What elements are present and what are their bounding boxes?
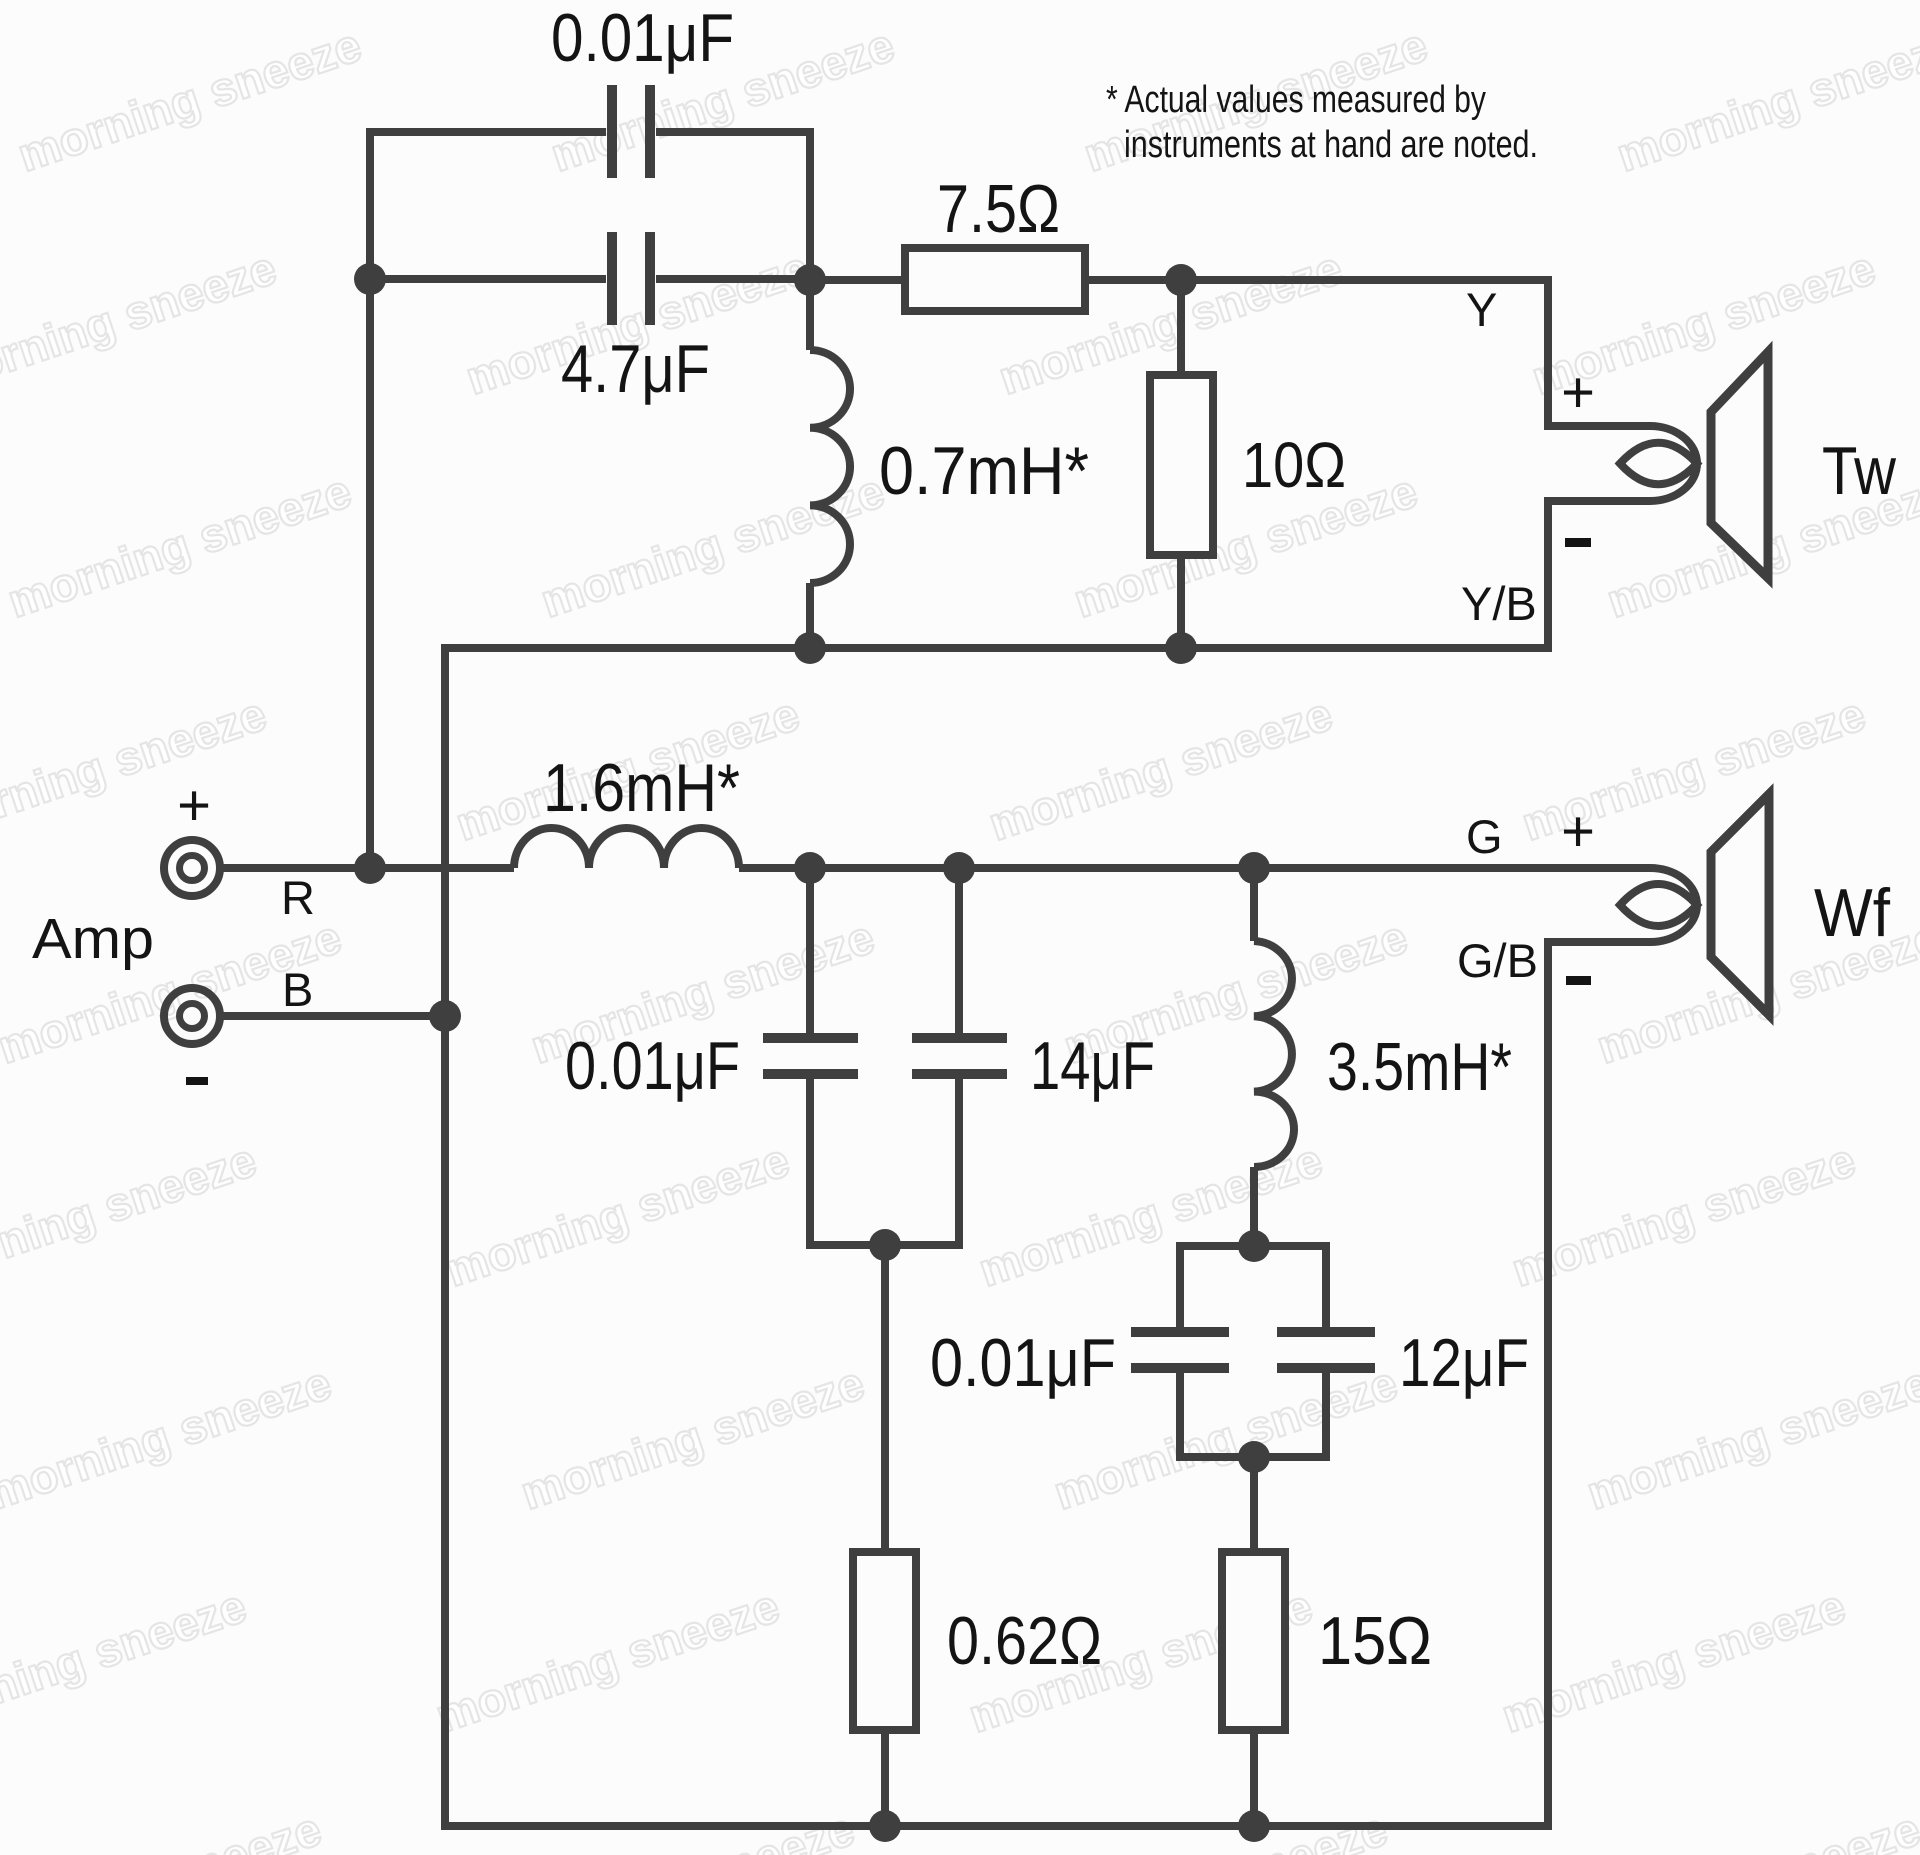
node dot (1254,868) bbox=[1238, 852, 1270, 884]
node dot (370,279) bbox=[354, 263, 386, 295]
node dot (1254,1826) bbox=[1238, 1810, 1270, 1842]
svg-text:Y/B: Y/B bbox=[1461, 577, 1537, 630]
amp - terminal bbox=[164, 988, 220, 1044]
svg-text:Y: Y bbox=[1466, 283, 1497, 336]
svg-text:+: + bbox=[1561, 360, 1595, 425]
svg-text:instruments at hand are noted.: instruments at hand are noted. bbox=[1124, 124, 1538, 166]
woofer cone bbox=[1711, 794, 1769, 1015]
wire: Y rail resistor to corner, down to Tw plus stub bbox=[1085, 280, 1650, 426]
node dot (1254,1246) bbox=[1238, 1230, 1270, 1262]
wire: Y rail from cap node to resistor bbox=[810, 276, 905, 284]
node dot (810,648) bbox=[794, 632, 826, 664]
wire: cap pair bottom rail y=1245 bbox=[806, 1241, 963, 1249]
node dot (810,279) bbox=[794, 264, 826, 296]
svg-text:12μF: 12μF bbox=[1399, 1325, 1529, 1401]
wire: cap column x=959 lower bbox=[955, 868, 963, 1249]
label Amp minus bbox=[186, 1077, 208, 1085]
tweeter cone bbox=[1711, 352, 1768, 578]
inductor 1.6mH bbox=[514, 828, 739, 868]
wire: cap box bottom rail y=1457 bbox=[1180, 1453, 1326, 1461]
amp + terminal bbox=[164, 840, 220, 896]
capacitor 4.7uF plates bbox=[612, 232, 650, 325]
wire: 3.5mH to cap box bbox=[1250, 1167, 1258, 1246]
node dot (1254,1457) bbox=[1238, 1441, 1270, 1473]
wire: cap box left column x=1180 bbox=[1176, 1242, 1184, 1461]
svg-text:Amp: Amp bbox=[32, 907, 154, 971]
wire: left node column vertical (370,132)-(370,868) bbox=[366, 132, 374, 868]
svg-text:3.5mH*: 3.5mH* bbox=[1327, 1029, 1512, 1105]
node dot (959,868) bbox=[943, 852, 975, 884]
wire: 10ohm column top bbox=[1177, 280, 1185, 375]
wire: cap box right column x=1326 bbox=[1322, 1242, 1330, 1461]
woofer voice coil arc bbox=[1650, 868, 1697, 942]
resistor 0.62ohm bbox=[853, 1552, 916, 1730]
wire: G rail y=868 bbox=[739, 864, 1650, 872]
tweeter voice coil lens bbox=[1620, 443, 1697, 485]
node dot (370,868) bbox=[354, 852, 386, 884]
wire: 3.5mH column top bbox=[1250, 868, 1258, 941]
resistor 10ohm bbox=[1150, 375, 1213, 555]
svg-text:0.01μF: 0.01μF bbox=[930, 1325, 1116, 1401]
wire: 15ohm to bottom rail bbox=[1250, 1730, 1258, 1826]
wire: right node column x=810 (top) bbox=[806, 128, 814, 350]
label Tw minus bbox=[1565, 538, 1591, 547]
inductor 0.7mH bbox=[810, 350, 850, 583]
svg-text:R: R bbox=[281, 871, 315, 924]
wire: 10ohm column bottom bbox=[1177, 555, 1185, 648]
node dot (1181,648) bbox=[1165, 632, 1197, 664]
capacitor 0.01uF bottom plates bbox=[1131, 1332, 1229, 1368]
svg-text:0.62Ω: 0.62Ω bbox=[947, 1603, 1102, 1679]
svg-text:B: B bbox=[282, 963, 313, 1016]
svg-text:0.01μF: 0.01μF bbox=[551, 0, 734, 76]
svg-text:* Actual values measured by: * Actual values measured by bbox=[1106, 79, 1486, 121]
amp - terminal wire bbox=[222, 1012, 445, 1020]
wire: cap box top rail y=1246 bbox=[1180, 1242, 1326, 1250]
node dot (885,1245) bbox=[869, 1229, 901, 1261]
woofer voice coil lens bbox=[1620, 884, 1697, 926]
wire: 15ohm column x=1254 bbox=[1250, 1457, 1258, 1552]
svg-text:15Ω: 15Ω bbox=[1318, 1603, 1432, 1679]
capacitor 0.01uF lower plates bbox=[763, 1038, 858, 1074]
inductor 3.5mH bbox=[1254, 941, 1294, 1167]
node dot (810,868) bbox=[794, 852, 826, 884]
svg-text:+: + bbox=[1561, 799, 1595, 864]
wire: Y/B rail y=648 bbox=[441, 501, 1650, 648]
node dot (885,1826) bbox=[869, 1810, 901, 1842]
node dot (445,1016) bbox=[429, 1000, 461, 1032]
svg-text:1.6mH*: 1.6mH* bbox=[543, 750, 740, 826]
wire: top branch rail y=132 bbox=[366, 128, 814, 136]
capacitor 0.01uF top plates bbox=[612, 85, 650, 178]
tweeter voice coil arc bbox=[1650, 426, 1697, 501]
svg-text:+: + bbox=[177, 773, 211, 838]
wire: 0.62ohm column x=885 bbox=[881, 1245, 889, 1552]
circuit wires bbox=[222, 85, 1769, 1826]
label Wf minus bbox=[1566, 976, 1591, 985]
svg-text:Wf: Wf bbox=[1814, 875, 1890, 951]
svg-text:10Ω: 10Ω bbox=[1242, 429, 1346, 501]
svg-text:4.7μF: 4.7μF bbox=[561, 331, 710, 407]
resistor 15ohm bbox=[1222, 1552, 1285, 1730]
wire: bottom rail y=1826 bbox=[441, 942, 1650, 1826]
svg-text:G: G bbox=[1466, 810, 1503, 863]
wire: x445 column from Y/B down to bottom rail bbox=[441, 644, 449, 1826]
svg-text:7.5Ω: 7.5Ω bbox=[937, 171, 1060, 247]
wire: mid branch rail y=279 bbox=[370, 275, 810, 283]
svg-text:Tw: Tw bbox=[1822, 433, 1897, 509]
capacitor 12uF plates bbox=[1277, 1332, 1375, 1368]
wire: below 0.7mH to Y/B rail bbox=[806, 583, 814, 648]
capacitor 14uF plates bbox=[912, 1038, 1007, 1074]
resistor 7.5ohm bbox=[905, 248, 1085, 311]
svg-text:0.01μF: 0.01μF bbox=[565, 1028, 740, 1104]
svg-text:G/B: G/B bbox=[1457, 934, 1538, 987]
wire: R rail terminal to inductor bbox=[370, 864, 514, 872]
svg-text:14μF: 14μF bbox=[1030, 1028, 1155, 1104]
node dot (1181,280) bbox=[1165, 264, 1197, 296]
svg-text:0.7mH*: 0.7mH* bbox=[879, 433, 1089, 509]
amp + terminal wire bbox=[222, 864, 370, 872]
wire: 0.62ohm to bottom rail bbox=[881, 1730, 889, 1826]
wire: cap column x=810 lower bbox=[806, 868, 814, 1249]
